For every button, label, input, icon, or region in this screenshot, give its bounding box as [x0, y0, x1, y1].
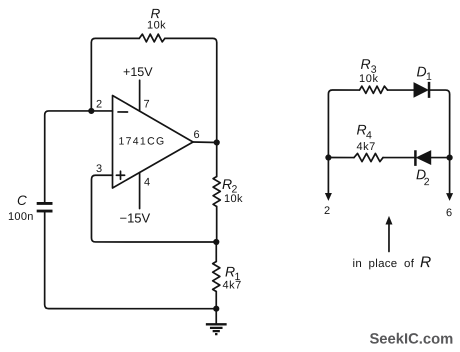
- label -15V: [119, 210, 150, 225]
- svg-text:SeekIC.com: SeekIC.com: [369, 332, 453, 348]
- arrow terminal 6 down: [446, 158, 453, 201]
- svg-text:6: 6: [194, 129, 200, 141]
- wire D1 to right vertical down to node 6: [430, 90, 449, 158]
- label R value 10k: [147, 19, 166, 31]
- label R3 designator: [361, 56, 377, 76]
- label in place of R: [352, 254, 431, 271]
- label C value 100n: [8, 211, 34, 223]
- diode D1 cathode bar: [428, 82, 431, 98]
- node left junction row 2: [325, 154, 331, 160]
- wire R3 to D1: [388, 89, 415, 91]
- svg-text:in place of: in place of: [352, 258, 414, 270]
- svg-text:3: 3: [96, 163, 102, 175]
- diode D2 triangle pointing left: [417, 151, 431, 164]
- wire pin 4 supply: [139, 172, 141, 208]
- svg-text:2: 2: [424, 176, 430, 188]
- wire inverting input horizontal and down-left to capacitor: [45, 111, 113, 202]
- svg-text:1741CG: 1741CG: [119, 135, 166, 147]
- resistor R zigzag: [139, 34, 165, 42]
- op-amp U1 triangle 1741CG: [112, 95, 193, 188]
- label R4 value 4k7: [357, 141, 376, 153]
- wire output node down to R2: [216, 142, 218, 176]
- label terminal 6: [446, 207, 452, 219]
- label R2 designator: [222, 176, 238, 196]
- wire R1 to ground node: [215, 291, 217, 308]
- node A junction R1 R2 pin3: [213, 239, 219, 245]
- svg-text:−15V: −15V: [119, 210, 150, 225]
- node ground junction: [213, 306, 219, 312]
- wire feedback right horizontal and right vertical down to output node: [165, 38, 217, 142]
- resistor R4 zigzag: [354, 153, 383, 161]
- wire output to right branch: [193, 141, 217, 144]
- svg-text:R: R: [151, 6, 161, 21]
- resistor R3 zigzag: [360, 86, 388, 93]
- svg-text:R: R: [420, 254, 431, 271]
- node right junction row 2: [447, 154, 453, 160]
- svg-text:7: 7: [144, 98, 150, 110]
- svg-text:10k: 10k: [359, 73, 379, 85]
- label R1 designator: [225, 263, 241, 283]
- label R1 value 4k7: [222, 279, 241, 291]
- svg-text:2: 2: [324, 205, 330, 217]
- svg-text:4: 4: [144, 176, 150, 188]
- wire pin 7 supply: [139, 80, 141, 111]
- wire R2 to node A: [216, 206, 218, 241]
- label +15V: [123, 65, 153, 79]
- logo SeekIC.com: [369, 332, 453, 348]
- wire capacitor bottom down and right to ground node: [45, 211, 217, 309]
- wire feedback left vertical from node 2 up to top: [91, 38, 139, 111]
- svg-text:+15V: +15V: [123, 65, 153, 79]
- wire node A to R1: [215, 242, 217, 262]
- label R3 value 10k: [359, 73, 379, 85]
- label terminal 2: [324, 205, 330, 217]
- diode D2 anode bar: [414, 150, 417, 166]
- label 1741CG: [119, 135, 166, 147]
- label R designator: [151, 6, 161, 21]
- label pin number 6: [194, 129, 200, 141]
- diode D1 triangle: [414, 83, 428, 97]
- wire left node to R4: [328, 157, 354, 159]
- label C designator: [17, 193, 27, 208]
- wire pin 3 branch down and right to node A: [91, 175, 216, 242]
- svg-text:6: 6: [446, 207, 452, 219]
- svg-text:R: R: [361, 56, 371, 72]
- arrow terminal 2 down: [325, 158, 332, 201]
- resistor R1 zigzag vertical: [213, 261, 220, 291]
- svg-text:1: 1: [426, 71, 432, 83]
- svg-text:C: C: [17, 193, 27, 208]
- capacitor C plates: [37, 203, 53, 211]
- resistor R2 zigzag vertical: [213, 176, 220, 206]
- svg-text:10k: 10k: [147, 19, 166, 31]
- node output junction: [214, 139, 220, 145]
- arrow pointer up in place of R: [385, 216, 392, 252]
- svg-text:100n: 100n: [8, 211, 34, 223]
- op-amp plus sign: [116, 171, 124, 179]
- ground symbol: [206, 309, 227, 334]
- label D2 designator: [416, 166, 430, 188]
- label D1 designator: [417, 63, 433, 82]
- label pin number 7: [144, 98, 150, 110]
- svg-text:4: 4: [366, 130, 372, 142]
- label pin number 2: [96, 98, 102, 110]
- wire right circuit left vertical and top to R3: [328, 90, 359, 158]
- svg-text:2: 2: [96, 98, 102, 110]
- label R4 designator: [357, 122, 373, 142]
- label pin number 4: [144, 176, 150, 188]
- svg-text:4k7: 4k7: [357, 141, 376, 153]
- svg-text:4k7: 4k7: [222, 279, 241, 291]
- wire D2 to right node: [431, 157, 450, 159]
- node junction at pin 2: [88, 108, 94, 114]
- op-amp minus sign: [118, 111, 128, 113]
- label R2 value 10k: [224, 193, 243, 205]
- label pin number 3: [96, 163, 102, 175]
- svg-text:10k: 10k: [224, 193, 243, 205]
- wire R4 to D2: [383, 157, 414, 159]
